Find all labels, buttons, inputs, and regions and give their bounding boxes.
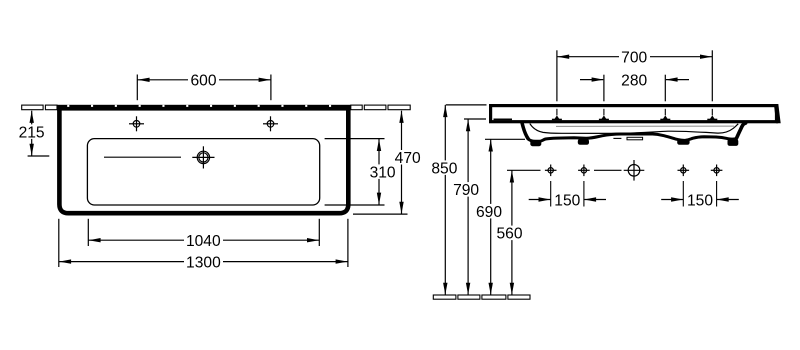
- dim 310 line: [378, 139, 380, 205]
- rim right end slant: [774, 104, 781, 123]
- svg-text:215: 215: [19, 124, 45, 141]
- dim 280 ext lines: [603, 75, 605, 102]
- svg-text:150: 150: [687, 192, 713, 209]
- svg-text:280: 280: [621, 72, 647, 89]
- rim body: [491, 106, 777, 122]
- dim 600 ext line left: [136, 75, 138, 101]
- fixing hole crosshairs small: [545, 165, 723, 177]
- dim 150 left arrows: [529, 199, 551, 201]
- svg-text:700: 700: [621, 50, 647, 67]
- overflow slot line: [104, 156, 181, 158]
- dim 700 line: [557, 56, 712, 58]
- dim 1040 text: [184, 233, 223, 248]
- dim 470 arrows: [399, 111, 403, 123]
- mounting foot D: [728, 139, 739, 146]
- dim 700 arrows: [557, 55, 569, 59]
- dim 1040 arrows: [89, 238, 101, 242]
- dim 690 ext: [485, 138, 525, 140]
- dim 150 right ext lines: [682, 181, 684, 207]
- basin underside profile: right ascent: [737, 123, 746, 138]
- wall strip right segment 1: [351, 105, 362, 110]
- tap hole right: [263, 116, 278, 131]
- dim 310 top ext: [325, 138, 385, 140]
- trap cover outline: [627, 137, 643, 140]
- centerline segment: [594, 169, 622, 171]
- bowl back edge faint line: [556, 125, 734, 127]
- dim 1040 line: [88, 239, 319, 241]
- dim 1300 line: [59, 261, 348, 263]
- dim 215 line: [31, 111, 33, 156]
- dim 215 text: [19, 124, 46, 138]
- svg-text:600: 600: [190, 73, 216, 90]
- dim 600 arrows: [138, 78, 150, 82]
- dim 1300 ext lines: [58, 219, 60, 267]
- svg-text:790: 790: [453, 182, 479, 199]
- dim 470 line: [401, 111, 403, 214]
- wall strip right segment 3: [388, 105, 410, 110]
- svg-text:560: 560: [496, 226, 522, 243]
- wall strip right segment 2: [364, 105, 386, 110]
- svg-text:150: 150: [554, 192, 580, 209]
- dim 600 text: [188, 73, 219, 88]
- dim 310 text: [369, 164, 396, 179]
- dim 790 ext: [464, 118, 486, 120]
- basin underside profile: bottom band: [528, 134, 737, 141]
- dim 280 arrow left: [580, 79, 603, 81]
- dim 560 text: [496, 226, 523, 241]
- dim 690 line: [490, 139, 492, 295]
- dim 150 right arrows: [661, 199, 683, 201]
- dim 560 line: [511, 170, 513, 295]
- tile notches on top bar: [67, 105, 331, 107]
- svg-text:690: 690: [476, 204, 502, 221]
- basin underside profile: left descent: [522, 123, 528, 139]
- basin underside profile thin: [530, 124, 738, 134]
- dim 280 arrow right: [666, 79, 689, 81]
- mounting foot B: [578, 139, 589, 145]
- mounting foot A: [530, 140, 541, 146]
- dim 850 ext: [446, 104, 487, 106]
- dim 470 text: [395, 150, 422, 165]
- basin top edge bar: [57, 105, 351, 111]
- floor strip segments: [433, 295, 456, 299]
- svg-text:310: 310: [370, 164, 396, 181]
- dim 310 arrows: [377, 139, 381, 151]
- dim 700 text: [619, 50, 650, 65]
- dim 1300 arrows: [59, 259, 71, 263]
- inner bottom left segment: [494, 119, 513, 121]
- dim 215 ref line: [28, 155, 50, 157]
- dim 850 line: [444, 105, 446, 295]
- dim 850 text: [431, 160, 458, 175]
- drain crosshair: [192, 146, 214, 168]
- svg-text:1040: 1040: [186, 233, 221, 250]
- dim 700 ext lines: [556, 50, 558, 101]
- tap hole left: [129, 116, 144, 131]
- mounting foot C: [677, 139, 689, 145]
- dim 790 line: [467, 119, 469, 295]
- dim 215 arrows: [30, 111, 34, 123]
- dim 470 bottom ext: [353, 213, 408, 215]
- dim 1040 ext lines: [87, 219, 89, 246]
- dim 310 bottom ext: [325, 204, 385, 206]
- dim 600 ext line right: [270, 75, 272, 101]
- tap position marks: [552, 109, 562, 120]
- dim 150 left ext lines: [550, 181, 552, 207]
- dim 600 line: [137, 79, 271, 81]
- dim 560 ext: [507, 169, 541, 171]
- wall strip left segment 1: [22, 105, 43, 110]
- svg-text:470: 470: [395, 150, 421, 167]
- dim 790 text: [453, 182, 480, 197]
- svg-text:1300: 1300: [186, 254, 221, 271]
- basin outer body (plan): [59, 105, 348, 213]
- dim 690 text: [476, 204, 503, 219]
- inner basin rounded rect: [87, 139, 319, 205]
- wall strip left segment 2: [45, 105, 57, 110]
- svg-text:850: 850: [431, 160, 457, 177]
- dim 1300 text: [184, 254, 223, 269]
- drain hidden line: [613, 137, 621, 139]
- center crosshair large: [624, 160, 645, 181]
